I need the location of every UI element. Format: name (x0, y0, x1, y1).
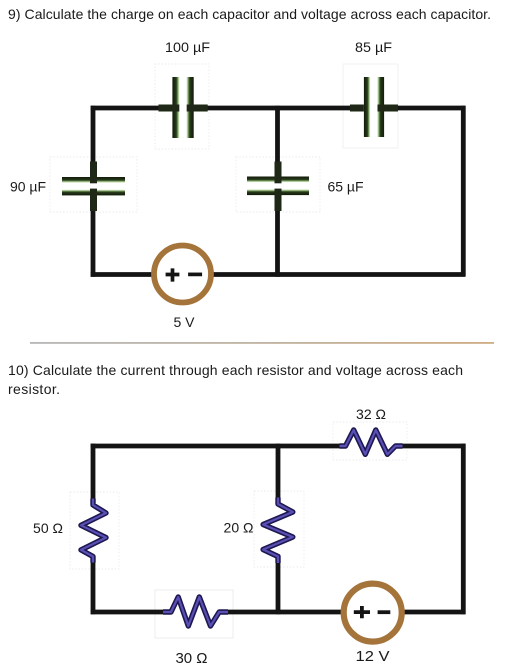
selection box around capacitor C4 (65 uF) (236, 157, 320, 212)
V1 plus sign (166, 268, 180, 281)
svg-text:90 µF: 90 µF (10, 179, 46, 195)
capacitor C3 90 uF bottom plate (62, 190, 125, 196)
resistor R2 50 ohm zigzag (fill) (81, 499, 106, 563)
svg-text:9) Calculate the charge on eac: 9) Calculate the charge on each capacito… (8, 6, 491, 22)
wire: circuit 10 right vertical (461, 444, 466, 615)
selection box around capacitor C1 (100 uF) (155, 64, 209, 149)
V2 minus sign (378, 610, 391, 614)
wire: circuit 10 bottom, middle segment (227, 610, 342, 615)
resistor R4 30 ohm zigzag (outline) (163, 597, 228, 626)
svg-text:20 Ω: 20 Ω (224, 520, 254, 536)
svg-text:50 Ω: 50 Ω (33, 520, 63, 536)
wire: circuit 10 left vertical upper (91, 444, 96, 500)
svg-text:12 V: 12 V (356, 648, 390, 665)
wire: circuit 9 top, left segment (91, 106, 160, 111)
capacitor C3 90 uF lead stubs (90, 162, 97, 184)
resistor R2 50 ohm zigzag (outline) (81, 499, 106, 563)
wire: circuit 9 middle vertical lower (275, 195, 280, 277)
svg-text:30 Ω: 30 Ω (175, 650, 207, 667)
wire: circuit 9 left vertical lower (91, 195, 96, 277)
resistor R1 32 ohm zigzag (outline) (340, 430, 403, 454)
wire: circuit 10 top, left segment (91, 444, 340, 449)
resistor R3 20 ohm zigzag (fill) (263, 498, 293, 564)
wire: circuit 9 left vertical upper (91, 106, 96, 179)
divider line between problems (30, 342, 494, 343)
wire: circuit 10 middle vertical lower (276, 562, 281, 614)
selection box around capacitor C2 (85 uF) (343, 64, 398, 148)
V1 minus sign (188, 273, 202, 277)
wire: circuit 9 middle vertical upper (275, 106, 280, 179)
resistor R1 32 ohm zigzag (fill) (340, 430, 403, 454)
wire: circuit 10 left vertical lower (91, 561, 96, 614)
capacitor C4 65 uF lead stubs (275, 162, 282, 184)
svg-text:5 V: 5 V (173, 314, 195, 330)
svg-text:32 Ω: 32 Ω (356, 406, 386, 422)
svg-text:100 µF: 100 µF (165, 39, 210, 55)
capacitor C2 85 uF lead stubs (350, 105, 364, 112)
capacitor C1 100 uF left plate (172, 77, 179, 138)
svg-text:85 µF: 85 µF (355, 39, 392, 55)
wire: circuit 9 top, right segment (381, 106, 465, 111)
wire: circuit 10 bottom, right segment (404, 610, 465, 615)
selection box around resistor R3 (20 ohm) (254, 491, 304, 567)
selection box around resistor R4 (30 ohm) (155, 590, 233, 638)
voltage source V1 (5 V) circle (154, 246, 211, 303)
selection box around capacitor C3 (90 uF) (50, 157, 137, 212)
wire: circuit 9 top, middle segment (192, 106, 364, 111)
capacitor C1 100 uF right plate (187, 77, 194, 138)
wire: circuit 10 middle vertical upper (276, 444, 281, 498)
wire: circuit 10 top, right segment (403, 444, 466, 449)
wire: circuit 9 right vertical (461, 106, 466, 277)
selection box around resistor R2 (50 ohm) (70, 492, 119, 569)
capacitor C2 85 uF right plate (378, 77, 385, 137)
capacitor C1 100 uF lead stubs (159, 105, 180, 112)
capacitor C4 65 uF bottom plate (247, 190, 309, 196)
svg-text:resistor.: resistor. (8, 381, 60, 397)
capacitor C3 90 uF top plate (62, 177, 125, 183)
resistor R4 30 ohm zigzag (fill) (163, 597, 228, 626)
wire: circuit 10 bottom, left segment (91, 610, 164, 615)
selection box around resistor R1 (32 ohm) (333, 422, 407, 460)
wire: circuit 9 bottom left segment (91, 272, 153, 277)
svg-text:10) Calculate the current thro: 10) Calculate the current through each r… (8, 362, 463, 378)
svg-text:65 µF: 65 µF (327, 179, 363, 195)
capacitor C4 65 uF top plate (247, 177, 309, 183)
capacitor C2 85 uF left plate (364, 77, 370, 137)
V2 plus sign (354, 606, 370, 618)
voltage source V2 (12 V) circle (344, 584, 402, 642)
resistor R3 20 ohm zigzag (outline) (263, 498, 293, 564)
wire: circuit 9 bottom right segment (213, 272, 466, 277)
